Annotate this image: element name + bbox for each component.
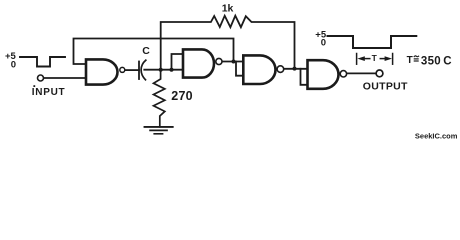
svg-text:1k: 1k bbox=[222, 2, 234, 14]
svg-text:INPUT: INPUT bbox=[32, 87, 66, 98]
svg-text:0: 0 bbox=[321, 38, 326, 49]
svg-text:350: 350 bbox=[421, 55, 441, 67]
svg-text:0: 0 bbox=[11, 60, 16, 71]
svg-text:SeekIC.com: SeekIC.com bbox=[415, 132, 458, 141]
svg-text:T: T bbox=[407, 55, 413, 66]
svg-text:OUTPUT: OUTPUT bbox=[363, 81, 408, 93]
svg-text:C: C bbox=[142, 45, 150, 57]
svg-text:270: 270 bbox=[171, 89, 192, 103]
svg-text:C: C bbox=[443, 55, 451, 67]
svg-text:T: T bbox=[372, 53, 378, 63]
